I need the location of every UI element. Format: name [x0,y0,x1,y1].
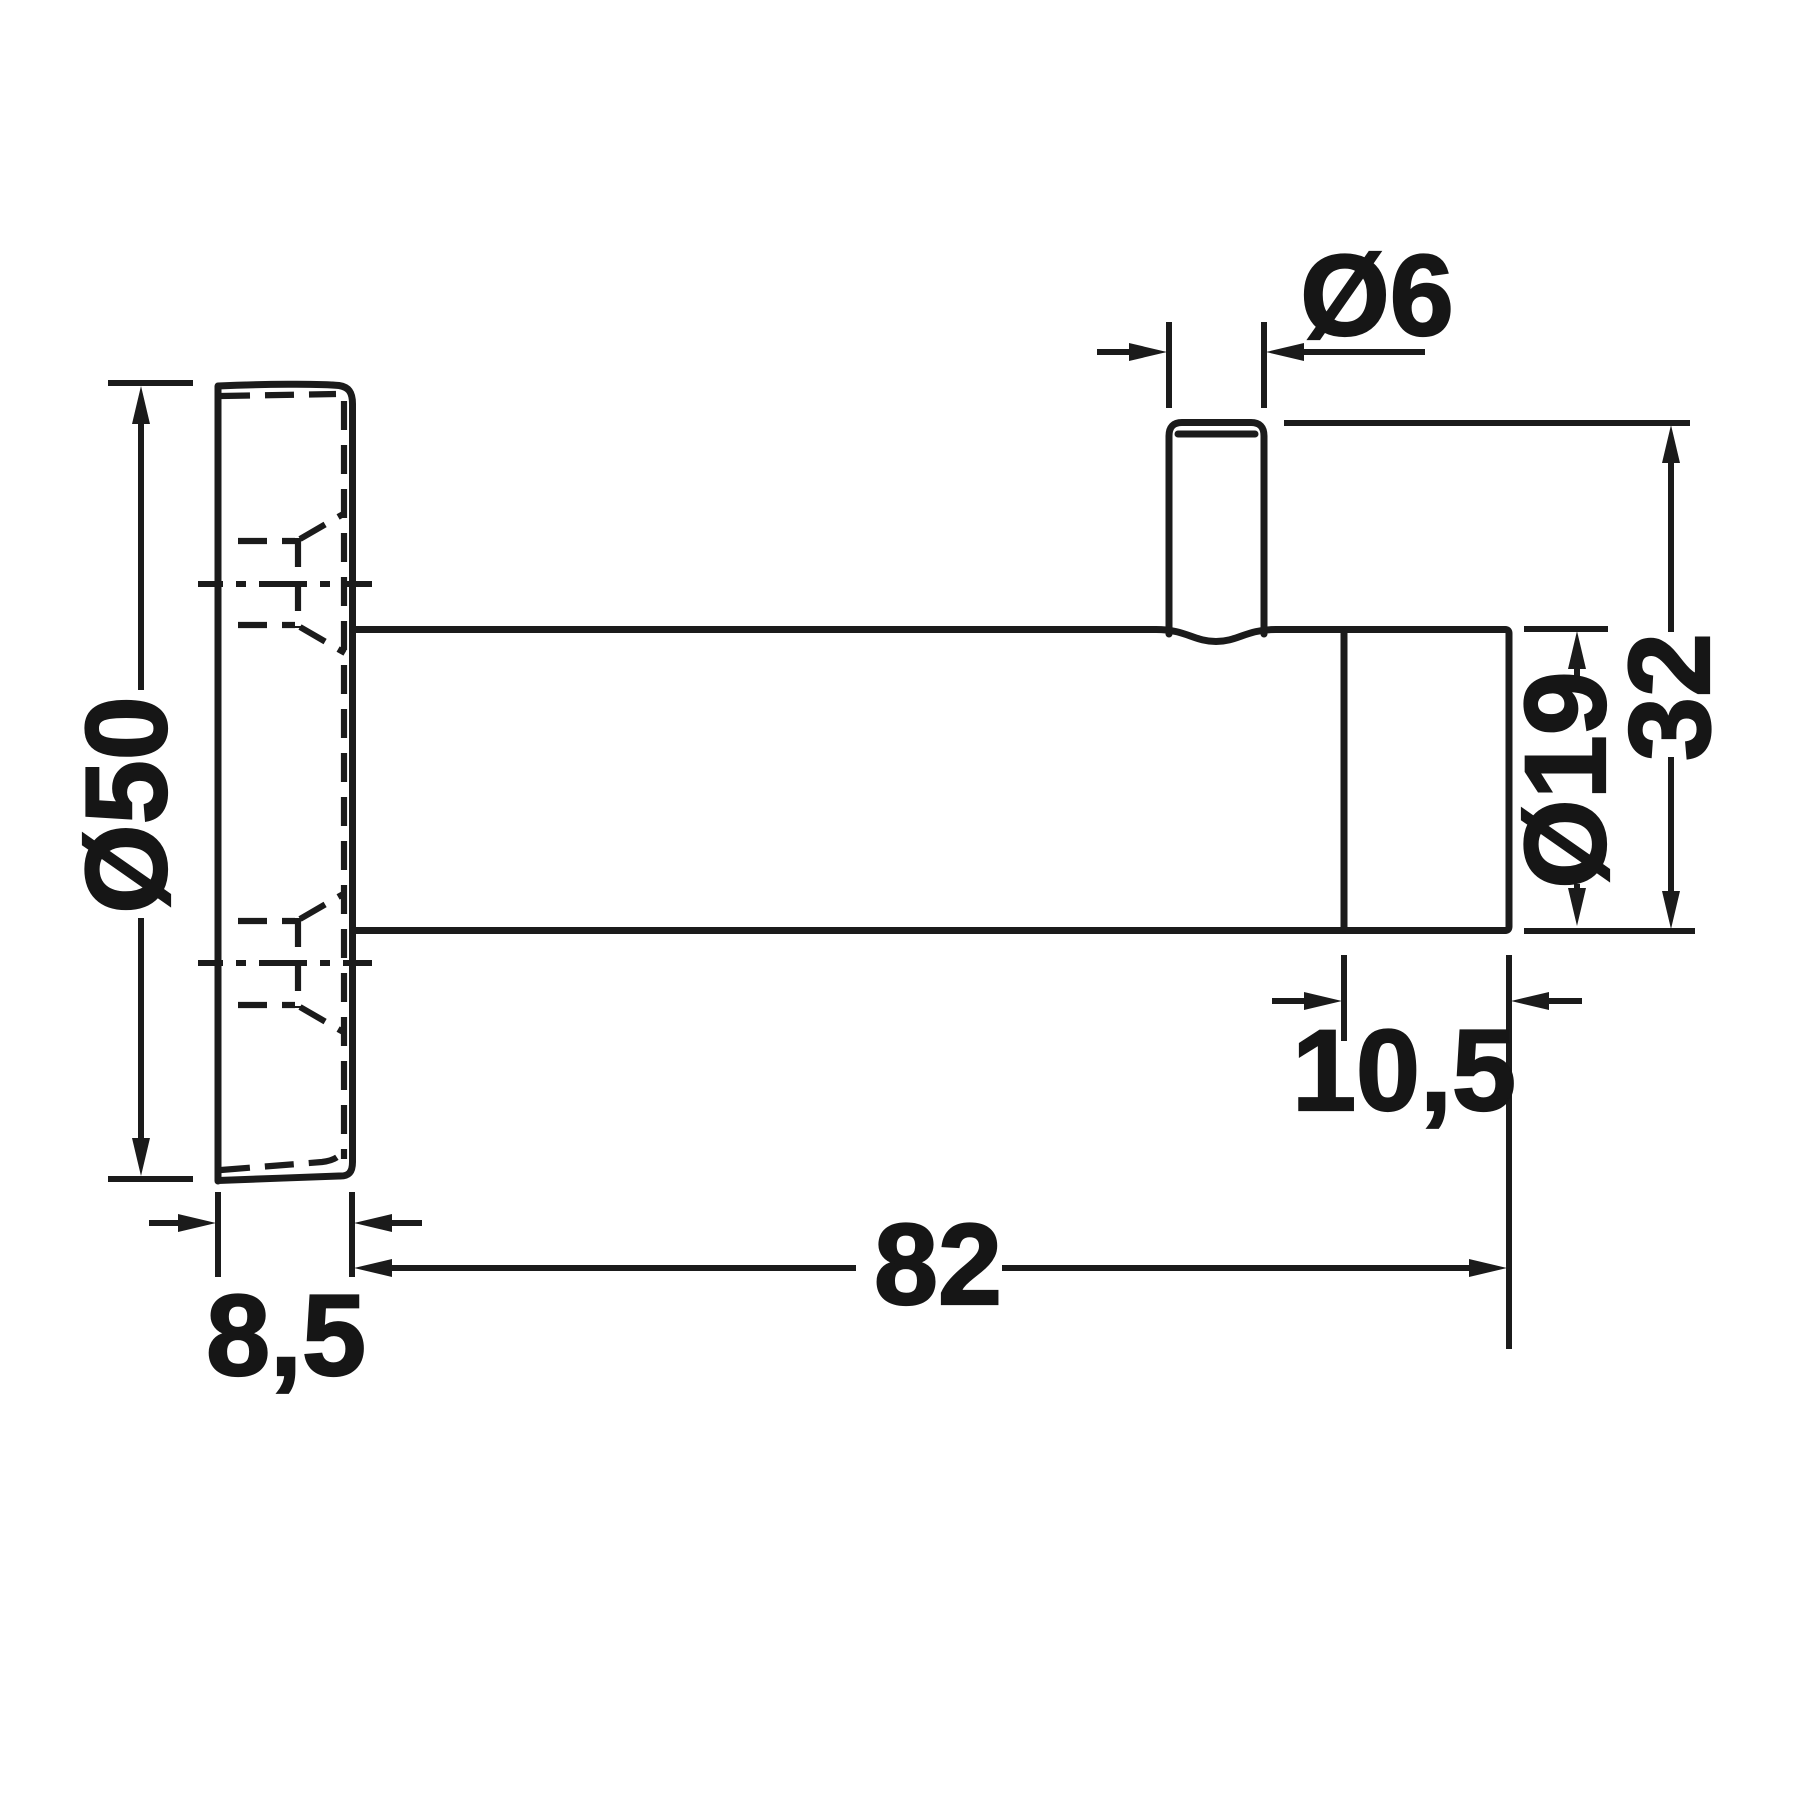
dimension D19: dimension line upper segment [1574,664,1580,676]
dimension 32: dimension line upper segment [1668,461,1674,632]
dimension 10,5: left extension line [1341,955,1347,1041]
lower screw hole bottom of bore (dashed) [295,918,301,1008]
dimension D19: arrowhead down [1568,888,1586,926]
flange hidden back edge top (dashed) [221,394,336,396]
dimension D6: left arrowhead [1129,343,1167,361]
upper screw hole bore bottom (dashed) [238,622,295,628]
lower screw hole bore bottom (dashed) [238,1002,295,1008]
dimension 82: dimension line right segment [1002,1265,1471,1271]
dimension D50: arrowhead up [132,386,150,424]
flange hidden back edge bottom (dashed) [221,1147,344,1170]
dimension 10,5: right arrow tail [1547,998,1582,1004]
lower screw hole countersink upper edge (dashed) [300,893,345,919]
dimension 10,5: right arrowhead [1511,992,1549,1010]
upper screw hole bottom of bore (dashed) [295,538,301,628]
dimension 8,5: left arrowhead [178,1214,216,1232]
dimension 32: dimension line lower segment [1668,757,1674,895]
dimension 82: left arrowhead [354,1259,392,1277]
dimension 8,5: left extension line [215,1192,221,1277]
flange hidden back edge vertical (dashed) [341,401,347,1159]
lower screw hole centerline [198,960,372,966]
upper screw hole centerline [198,581,372,587]
lower screw hole countersink lower edge (dashed) [300,1007,345,1033]
dimension D6: right dimension tail line [1302,349,1425,355]
dimension 82: right arrowhead [1469,1259,1507,1277]
svg-text:Ø6: Ø6 [1300,232,1453,360]
dimension D50: arrowhead down [132,1138,150,1176]
lower screw hole bore top (dashed) [238,918,295,924]
dimension D6: right arrowhead [1266,343,1304,361]
dimension D50: top extension line [108,380,193,386]
upper screw hole bore top (dashed) [238,538,295,544]
dimension 10,5: right extension line [1506,955,1512,1349]
dimension D6: left arrow tail [1097,349,1131,355]
dimension 8,5: left arrow tail [149,1220,183,1226]
dimension 82: left extension line (shared with 8,5) [349,1192,355,1277]
cylinder body top edge with fillet dip at pin [353,630,1505,642]
buffer cap left edge [1341,632,1348,929]
dimension D6: left extension line [1166,322,1172,408]
dimension 8,5: right arrowhead [354,1214,392,1232]
hook pin top chamfer line [1178,431,1255,438]
dimension 82: dimension line left segment [390,1265,856,1271]
upper screw hole countersink lower edge (dashed) [300,627,345,653]
dimension D50: bottom extension line [108,1176,193,1182]
dimension 32: bottom extension line (shared with D19) [1524,928,1695,934]
upper screw hole countersink upper edge (dashed) [300,513,345,539]
dimension D50: dimension line lower segment [138,918,144,1140]
svg-text:Ø50: Ø50 [63,696,191,913]
wall flange outline [218,384,353,1181]
dimension 10,5: left arrowhead [1304,992,1342,1010]
buffer cap right edge [1505,630,1509,931]
dimension 32: arrowhead down [1662,891,1680,929]
dimension 32: arrowhead up [1662,425,1680,463]
svg-text:8,5: 8,5 [206,1272,366,1400]
dimension D19: arrowhead up [1568,631,1586,669]
dimension D19: top extension line [1524,626,1608,632]
dimension 10,5: left arrow tail [1272,998,1306,1004]
svg-text:82: 82 [874,1201,1002,1329]
dimension D19: dimension line lower segment [1574,884,1580,894]
hook pin outline [1169,423,1264,635]
dimension D50: dimension line upper segment [138,421,144,690]
cylinder body bottom edge [353,927,1505,934]
svg-text:10,5: 10,5 [1292,1007,1516,1135]
dimension 8,5: right arrow tail [390,1220,422,1226]
dimension D6: right extension line [1261,322,1267,408]
dimension 32: top extension line [1284,420,1690,426]
svg-text:Ø19: Ø19 [1502,671,1630,888]
